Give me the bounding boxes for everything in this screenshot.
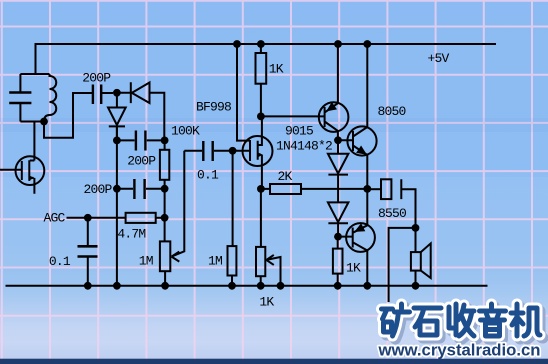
svg-text:2K: 2K (278, 169, 293, 184)
potentiometer RP1 1M (160, 241, 170, 285)
label C5 value 0.1 (197, 168, 219, 183)
node rail R3 (228, 282, 236, 290)
label RP1 value 1M (139, 254, 153, 269)
node rail Q3 (363, 282, 371, 290)
label R6 value 1K (346, 261, 361, 276)
wire RP1 wiper (172, 151, 185, 262)
node rail RP1 (161, 282, 169, 290)
wire Q4 drain tap (33, 122, 35, 157)
label D3 D4 value 1N4148*2 (276, 139, 332, 154)
node rail Q2 (363, 40, 371, 48)
label AGC net (44, 211, 66, 226)
wire tank top (20, 73, 49, 75)
svg-text:BF998: BF998 (196, 100, 231, 115)
wire RP2 wiper (266, 255, 280, 286)
wire AGC (67, 217, 126, 219)
svg-text:1M: 1M (139, 254, 153, 269)
diode D3 1N4148 (328, 144, 349, 202)
potentiometer RP2 1K (256, 247, 265, 286)
svg-text:9015: 9015 (285, 124, 313, 139)
watermark logo text (385, 307, 544, 339)
label C1 value 200P (82, 71, 111, 86)
svg-text:8550: 8550 (378, 206, 406, 221)
node rail wiper (277, 282, 285, 290)
wire tank tap to C1 (44, 93, 93, 138)
node rail R6 (334, 282, 342, 290)
transistor U1 BF998 (243, 136, 273, 166)
wire +5V top rail (36, 44, 497, 74)
resistor R5 2K (261, 184, 367, 194)
label Q3 type 8550 (378, 206, 406, 221)
svg-text:100K: 100K (171, 124, 200, 139)
node A detector junction (113, 89, 121, 97)
label R2 value 4.7M (117, 227, 145, 242)
wire drain to Q1 base (261, 115, 325, 117)
svg-text:+5V: +5V (428, 51, 450, 66)
resistor R3 1M (228, 246, 237, 286)
transistor Q3 internals (338, 189, 367, 286)
node D2 cathode junction (113, 137, 121, 145)
transistor Q2 internals (338, 44, 367, 189)
node output junction (363, 185, 371, 193)
label U1 type BF998 (196, 100, 231, 115)
node rail Q1 (334, 40, 342, 48)
svg-text:AGC: AGC (44, 211, 66, 226)
label R1 value 100K (171, 124, 200, 139)
transistor Q4 internals (0, 156, 34, 193)
resistor R2 4.7M (126, 213, 165, 223)
node tank-bottom junction (40, 118, 48, 126)
svg-text:0.1: 0.1 (49, 254, 71, 269)
transistor Q4 MOSFET (16, 156, 45, 185)
node source junction (257, 185, 265, 193)
label Q1 type 9015 (285, 124, 313, 139)
svg-text:1K: 1K (346, 261, 361, 276)
transistor Q1 9015 (319, 102, 349, 132)
bottom navy strip (0, 359, 548, 364)
node speaker top (412, 224, 420, 232)
wire to R3 1M (232, 151, 234, 246)
watermark url text (378, 340, 541, 359)
node rail bus (113, 282, 121, 290)
svg-text:1K: 1K (259, 295, 274, 310)
transistor Q2 8050 (347, 126, 376, 155)
svg-text:200P: 200P (84, 182, 113, 197)
node drain junction (257, 113, 265, 121)
resistor R6 1K (333, 237, 343, 286)
node 4.7M right (161, 214, 169, 222)
transistor U1 BF998 internals (233, 44, 263, 189)
svg-text:1M: 1M (208, 254, 222, 269)
wire D1 anode to 100K (150, 93, 165, 141)
svg-text:1K: 1K (269, 62, 284, 77)
node rail RP2 (257, 282, 265, 290)
node Q3 base (334, 233, 342, 241)
node AGC junction (84, 214, 92, 222)
inductor L1 coil (44, 74, 56, 122)
label +5V net (428, 51, 450, 66)
resistor R1 100K (160, 140, 169, 188)
resistor R4 1K (256, 44, 267, 116)
label R3 value 1M (208, 254, 222, 269)
node rail LS1 (412, 282, 420, 290)
capacitor tank C (9, 74, 31, 122)
label R5 value 2K (278, 169, 293, 184)
speaker LS1 (411, 228, 431, 286)
capacitor C2 200P (117, 131, 164, 151)
diode D2 (108, 95, 126, 137)
capacitor C3 200P (117, 179, 164, 199)
label C4 value 0.1 (49, 254, 71, 269)
svg-text:200P: 200P (82, 71, 111, 86)
capacitor C6 output electrolytic (367, 179, 415, 228)
wire left vertical bus (116, 128, 118, 286)
wire speaker tap down (389, 228, 416, 302)
capacitor C4 0.1 AGC bypass (78, 218, 98, 286)
label RP2 value 1K (259, 295, 274, 310)
transistor Q1 internals (325, 44, 338, 140)
node rail G2 (233, 40, 241, 48)
capacitor C1 200P (93, 85, 113, 105)
capacitor C5 0.1 coupling (184, 141, 232, 161)
diode D1 (117, 82, 150, 103)
node Q2 base (334, 136, 342, 144)
svg-text:200P: 200P (127, 154, 156, 169)
grid (decorative) band overlays (0, 118, 548, 132)
wire source to RP2 (260, 189, 262, 247)
label R4 value 1K (269, 62, 284, 77)
wire tank bottom (20, 121, 44, 123)
node C3 right (161, 185, 169, 193)
label C2 value 200P (127, 154, 156, 169)
svg-text:4.7M: 4.7M (117, 227, 145, 242)
diode D4 1N4148 (328, 202, 349, 236)
node 100K top (161, 137, 169, 145)
node rail C4 (84, 282, 92, 290)
svg-text:8050: 8050 (378, 104, 406, 119)
svg-text:1N4148*2: 1N4148*2 (276, 139, 332, 154)
label Q2 type 8050 (378, 104, 406, 119)
svg-text:0.1: 0.1 (197, 168, 219, 183)
transistor Q3 8550 (346, 223, 375, 252)
svg-text:www.crystalradio.cn: www.crystalradio.cn (378, 340, 541, 359)
wire to pot RP1 (164, 189, 166, 242)
wire ground rail (6, 285, 488, 287)
node rail 1K (257, 40, 265, 48)
node G1 junction (229, 147, 237, 155)
node C3 left (113, 185, 121, 193)
label C3 value 200P (84, 182, 113, 197)
